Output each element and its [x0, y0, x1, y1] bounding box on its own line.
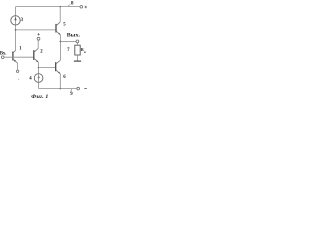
wire top rail: [16, 6, 80, 8]
wire Q2 emitter down to source 4: [37, 62, 39, 74]
svg-text:Вх.: Вх.: [0, 52, 6, 57]
transistor Q2 emitter diagonal: [34, 58, 38, 62]
svg-text:2: 2: [40, 50, 43, 55]
current source 4 arrow: [38, 75, 40, 78]
wire Q2 collector up: [37, 40, 39, 48]
wire source 4 to bottom rail: [38, 82, 40, 88]
transistor Q2 base bar: [33, 50, 35, 60]
svg-text:9: 9: [70, 92, 73, 97]
transistor Q2 collector diagonal: [34, 48, 38, 52]
output node junction dot: [60, 41, 62, 43]
svg-text:Фиг. 1: Фиг. 1: [31, 94, 49, 100]
transistor Q1 collector diagonal: [13, 50, 16, 52]
transistor Q6 collector diagonal: [56, 60, 61, 64]
leader line for 9: [71, 89, 72, 92]
svg-text:7: 7: [67, 48, 70, 53]
svg-text:1: 1: [19, 46, 22, 51]
wire Q5 collector riser: [59, 7, 61, 22]
svg-text:8: 8: [71, 0, 74, 6]
svg-text:Вых.: Вых.: [67, 33, 81, 39]
transistor Q5 base bar: [55, 24, 57, 33]
node junction top (Q5 collector to rail): [59, 6, 61, 8]
terminal 8 circle: [80, 6, 83, 9]
minus sign -: [84, 88, 87, 90]
transistor Q6 emitter arrow (NPN): [58, 72, 60, 74]
svg-text:6: 6: [63, 75, 66, 80]
transistor Q1 emitter diagonal: [13, 59, 17, 63]
transistor Q2 emitter arrow (NPN, outward): [36, 60, 38, 62]
svg-text:4: 4: [29, 77, 32, 82]
transistor Q1 emitter arrow (PNP, into bar): [14, 60, 16, 62]
transistor Q5 emitter diagonal: [56, 31, 60, 35]
svg-text:н: н: [84, 50, 86, 54]
wire input to bases of Q1,Q2: [4, 56, 33, 58]
current source I1 (3) circle: [11, 16, 20, 25]
wire to Q6 base: [38, 67, 55, 69]
terminal 9 circle: [77, 87, 80, 90]
terminal circle at Q1 emitter: [16, 70, 18, 72]
wire Q1 emitter down: [17, 63, 19, 70]
wire resistor to ground: [76, 55, 78, 61]
wire Q6 emitter to rail: [59, 74, 61, 89]
current source I2 (4) circle: [34, 74, 43, 83]
transistor Q5 collector diagonal: [56, 22, 60, 26]
wire output node to load: [60, 41, 76, 43]
wire left vertical (rail to node A through source 3): [15, 7, 17, 51]
current source 4 internal line: [38, 74, 40, 83]
wire bottom rail: [39, 88, 77, 90]
transistor Q6 base bar: [55, 62, 57, 71]
junction dot Q6 emitter / rail: [60, 88, 62, 90]
leader line for 8: [68, 4, 71, 6]
current source 3 arrow: [14, 17, 16, 20]
output terminal circle (node 7): [76, 40, 79, 43]
plus sign + (top right): [85, 6, 87, 8]
small dot mark: [18, 79, 19, 80]
junction dot Q2 emitter / Q6 base: [38, 67, 40, 69]
node A junction dot: [15, 29, 17, 31]
resistor Rn body: [75, 45, 80, 55]
svg-text:3: 3: [21, 18, 24, 23]
svg-text:5: 5: [63, 22, 66, 27]
terminal circle (+ bias): [37, 37, 40, 40]
plus sign above bias terminal: [37, 33, 39, 35]
wire node A to Q5 base: [16, 29, 56, 31]
ground bar: [74, 60, 81, 62]
transistor Q1 base bar: [12, 52, 14, 61]
transistor Q6 emitter diagonal: [56, 70, 60, 74]
wire Q5 emitter down to Q6 collector: [59, 35, 61, 61]
wire terminal to resistor: [76, 43, 78, 45]
input terminal circle: [1, 56, 4, 59]
transistor Q5 emitter arrow (NPN): [58, 33, 60, 35]
